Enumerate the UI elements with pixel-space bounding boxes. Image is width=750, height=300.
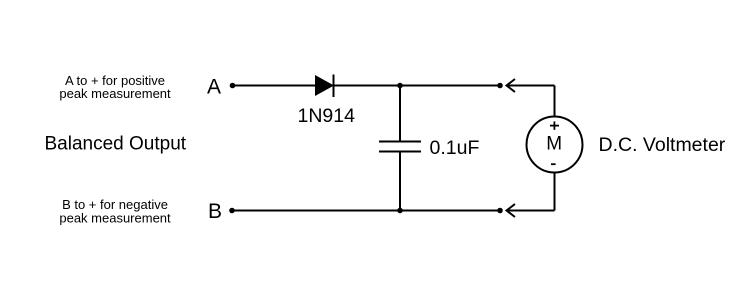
svg-text:Balanced Output: Balanced Output — [45, 134, 187, 155]
junction dot top of capacitor — [397, 83, 403, 89]
wire junction down to capacitor — [399, 86, 401, 142]
node B terminal dot — [229, 208, 235, 214]
capacitor C1 — [379, 142, 421, 152]
bottom wire B rail — [232, 210, 501, 212]
note: A to + for positive peak measurement — [59, 73, 171, 101]
voltmeter M1 body — [527, 117, 583, 173]
svg-text:peak measurement: peak measurement — [59, 86, 171, 101]
probe contact dot bottom — [497, 208, 503, 214]
svg-text:1N914: 1N914 — [298, 105, 356, 127]
svg-text:B: B — [208, 200, 222, 223]
voltmeter plus terminal mark — [550, 121, 559, 129]
diode D1 1N914 — [315, 75, 334, 98]
node A terminal dot — [230, 83, 236, 89]
wire down from top lead to meter — [554, 86, 556, 118]
note: B to + for negative peak measurement — [59, 197, 171, 226]
svg-text:D.C. Voltmeter: D.C. Voltmeter — [599, 134, 726, 156]
wire diode cathode to node dot — [334, 85, 501, 87]
wire capacitor down to bottom rail — [399, 152, 401, 211]
probe arrow bottom (voltmeter - lead) — [507, 204, 555, 217]
junction dot bottom of capacitor — [397, 208, 403, 214]
svg-text:peak measurement: peak measurement — [59, 211, 171, 226]
wire A to diode anode — [233, 85, 316, 87]
wire up from bottom lead to meter — [554, 172, 556, 211]
svg-text:0.1uF: 0.1uF — [430, 137, 480, 159]
voltmeter minus terminal mark — [551, 163, 556, 165]
svg-text:M: M — [546, 134, 562, 155]
svg-text:A: A — [207, 76, 221, 99]
probe arrow top (voltmeter + lead) — [507, 79, 555, 92]
probe contact dot top — [497, 83, 503, 89]
